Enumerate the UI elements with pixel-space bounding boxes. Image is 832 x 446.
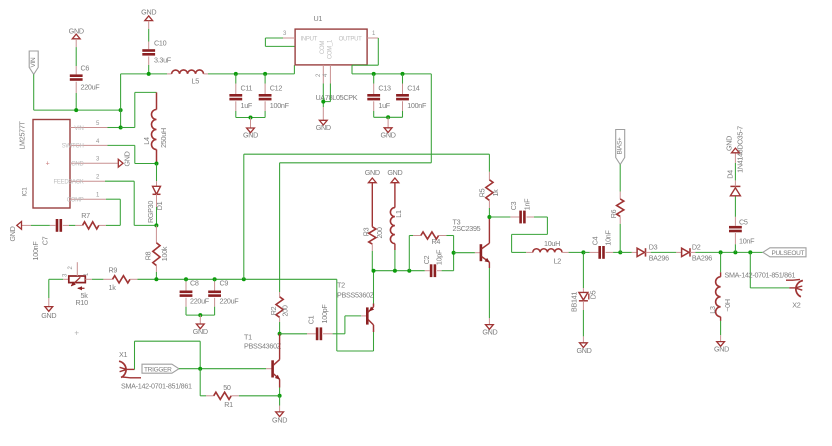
wire riser from rail to VIN pin row bbox=[120, 74, 122, 128]
net flag VIN bbox=[29, 51, 38, 74]
inductor L4 250uH bbox=[156, 92, 158, 109]
svg-text:COM: COM bbox=[320, 41, 326, 54]
wire boost rail left bbox=[121, 73, 167, 75]
junction R5 T3 collector C3 bbox=[487, 215, 491, 219]
wire C8 C9 ground loop bbox=[186, 314, 215, 316]
capacitor C4 10nF bbox=[583, 251, 589, 253]
svg-text:R7: R7 bbox=[81, 211, 90, 220]
wire rail riser to R5 feed line bbox=[243, 154, 245, 279]
wire C1 to T2 base bbox=[344, 316, 346, 334]
transistor T3 2SC2395 bbox=[454, 252, 475, 254]
pin 4 SWITCH of IC1 bbox=[70, 144, 108, 146]
wire X1 loop over trigger flag bbox=[134, 341, 136, 369]
wire boost rail to U1 input corner bbox=[208, 73, 294, 75]
pin 1 output of U1 bbox=[367, 37, 378, 39]
wire COM pins to ground bbox=[322, 84, 324, 108]
wire up to R4 bbox=[408, 236, 410, 271]
junction T3 base node bbox=[452, 251, 456, 255]
wire VIN junction up to L4 top bbox=[121, 127, 135, 129]
wire 5V rail right bbox=[352, 73, 431, 75]
ground GND below C8 C9 bbox=[199, 315, 201, 324]
junction C14 on 5V rail bbox=[401, 72, 405, 76]
ground GND below R10 bbox=[48, 279, 50, 298]
svg-text:L2: L2 bbox=[554, 257, 562, 266]
wire output down to 5V rail bbox=[377, 38, 379, 65]
svg-text:L1: L1 bbox=[394, 210, 403, 218]
ground GND below U1 bbox=[322, 107, 324, 120]
ground GND below C13 C14 bbox=[387, 117, 389, 128]
svg-text:VIN: VIN bbox=[30, 57, 37, 68]
junction D1 bottom feedback node bbox=[154, 223, 158, 227]
junction L2 C4 D5 bbox=[581, 250, 585, 254]
svg-text:C4: C4 bbox=[591, 236, 600, 245]
junction T2 emitter R3 bbox=[372, 269, 376, 273]
wire node row bbox=[374, 270, 425, 272]
pin 2 COM of U1 bbox=[322, 65, 324, 84]
svg-text:C10: C10 bbox=[154, 39, 167, 48]
svg-text:+: + bbox=[74, 329, 79, 338]
svg-text:C8: C8 bbox=[190, 278, 199, 287]
wire FEEDBACK to D1 junction bbox=[105, 180, 134, 182]
svg-text:U1: U1 bbox=[314, 14, 323, 23]
capacitor C14 100nF bbox=[402, 74, 404, 84]
junction ground loop bbox=[198, 313, 202, 317]
junction VIN pin bbox=[119, 126, 123, 130]
svg-text:250uH: 250uH bbox=[159, 128, 168, 148]
pin 3 GND of IC1 bbox=[70, 162, 118, 164]
wire pulse rail bbox=[138, 278, 337, 280]
svg-text:C7: C7 bbox=[41, 236, 50, 245]
svg-text:200: 200 bbox=[375, 227, 384, 238]
pin 3 input of U1 bbox=[283, 37, 295, 39]
wire T1 collector up to C1 node bbox=[279, 334, 281, 360]
IC IC1 LM2577T bbox=[33, 120, 70, 209]
ground GND below T3 bbox=[488, 318, 490, 325]
capacitor C3 1nF bbox=[489, 216, 510, 218]
junction L1 bottom bbox=[393, 269, 397, 273]
svg-text:GND: GND bbox=[725, 136, 734, 151]
svg-text:R10: R10 bbox=[76, 298, 89, 307]
wire trigger node to T1 base bbox=[179, 368, 266, 370]
junction C13 C14 ground bbox=[386, 115, 390, 119]
svg-text:X2: X2 bbox=[792, 300, 800, 309]
svg-text:RGP30: RGP30 bbox=[146, 201, 155, 223]
inductor L5 bbox=[167, 73, 172, 75]
resistor R9 1k bbox=[92, 278, 104, 280]
connector X2 SMA bbox=[749, 252, 751, 288]
svg-text:C14: C14 bbox=[407, 83, 420, 92]
junction X2 tap bbox=[748, 250, 752, 254]
svg-text:GND: GND bbox=[193, 327, 208, 336]
svg-text:220uF: 220uF bbox=[81, 83, 101, 92]
svg-text:PBSS4360Z: PBSS4360Z bbox=[244, 342, 282, 351]
svg-text:R8: R8 bbox=[144, 251, 153, 260]
junction L4 bottom bbox=[155, 162, 159, 166]
pin 1 COMP of IC1 bbox=[70, 198, 106, 200]
svg-text:TRIGGER: TRIGGER bbox=[144, 366, 172, 373]
svg-text:D1: D1 bbox=[155, 201, 164, 210]
resistor R5 1k bbox=[488, 172, 490, 180]
svg-text:220uF: 220uF bbox=[190, 297, 210, 306]
svg-text:R5: R5 bbox=[477, 188, 486, 197]
svg-text:PULSEOUT: PULSEOUT bbox=[772, 250, 805, 257]
junction C8 on rail bbox=[184, 277, 188, 281]
svg-text:100nF: 100nF bbox=[31, 241, 40, 261]
capacitor C11 1uF bbox=[235, 74, 237, 84]
ground GND below D5 bbox=[580, 343, 588, 348]
capacitor C1 100pF bbox=[280, 333, 307, 335]
svg-text:R6: R6 bbox=[609, 209, 618, 218]
svg-text:R2: R2 bbox=[269, 306, 278, 315]
junction R4 branch bbox=[407, 269, 411, 273]
junction R8 bottom on rail bbox=[154, 277, 158, 281]
resistor R8 100k bbox=[155, 225, 157, 242]
svg-text:10uH: 10uH bbox=[544, 239, 560, 248]
svg-text:220uF: 220uF bbox=[220, 297, 240, 306]
ground arrow at pin 3 bbox=[118, 159, 123, 167]
wire T2 collector down to loop bbox=[373, 325, 375, 332]
svg-text:IC1: IC1 bbox=[22, 187, 29, 197]
resistor R4 bbox=[413, 235, 421, 237]
capacitor C5 10nF bbox=[734, 244, 736, 252]
svg-text:GND: GND bbox=[365, 168, 380, 177]
resistor R2 200 bbox=[279, 292, 281, 297]
svg-text:D3: D3 bbox=[649, 243, 658, 252]
svg-text:GND: GND bbox=[316, 123, 331, 132]
junction C5 tap bbox=[733, 250, 737, 254]
wire input jog at pin 3 bbox=[265, 37, 283, 39]
wire VIN down to input rail bbox=[33, 74, 35, 110]
ground GND below C11 C12 bbox=[250, 118, 252, 129]
wire input rail bbox=[34, 109, 121, 111]
diode D2 BA296 bbox=[676, 251, 681, 253]
junction C10 on boost rail bbox=[147, 72, 151, 76]
svg-text:50: 50 bbox=[223, 383, 231, 392]
svg-text:200: 200 bbox=[281, 305, 290, 316]
capacitor C6 220uF bbox=[75, 39, 77, 47]
ground GND above D4 bbox=[734, 153, 736, 163]
svg-text:GND: GND bbox=[714, 345, 729, 354]
svg-text:SWITCH: SWITCH bbox=[62, 144, 84, 150]
transistor T1 PBSS4360Z bbox=[266, 368, 272, 370]
svg-text:GND: GND bbox=[71, 162, 84, 168]
resistor R3 200 bbox=[371, 183, 373, 227]
svg-text:INPUT: INPUT bbox=[301, 37, 318, 43]
svg-text:R1: R1 bbox=[224, 400, 233, 409]
svg-text:COMP: COMP bbox=[67, 198, 84, 204]
wire T3 emitter to ground bbox=[488, 262, 490, 268]
svg-text:GND: GND bbox=[272, 415, 287, 424]
junction C13 on 5V rail bbox=[372, 72, 376, 76]
junction COM ground bbox=[321, 100, 325, 104]
svg-text:C5: C5 bbox=[739, 217, 748, 226]
wire T1 emitter down bbox=[279, 379, 281, 387]
wire R4 C2 join to T3 base bbox=[453, 236, 455, 271]
net flag PULSEOUT bbox=[763, 248, 806, 257]
trimmer R10 5k bbox=[49, 278, 63, 280]
connector X1 SMA bbox=[119, 361, 126, 377]
svg-text:2SC2395: 2SC2395 bbox=[453, 224, 481, 233]
svg-text:X1: X1 bbox=[119, 350, 127, 359]
svg-text:1uF: 1uF bbox=[378, 101, 390, 110]
inductor L3 ~0H bbox=[720, 252, 722, 272]
wire pin5 to riser junction bbox=[108, 127, 121, 129]
wire C13 C14 ground loop bbox=[374, 116, 403, 118]
wire C11 C12 ground loop bbox=[236, 117, 265, 119]
svg-text:C6: C6 bbox=[81, 64, 90, 73]
capacitor C13 1uF bbox=[373, 74, 375, 84]
junction rail riser to R5 feed bbox=[242, 277, 246, 281]
capacitor C7 100nF bbox=[69, 224, 75, 226]
diode D1 RGP30 bbox=[156, 164, 158, 182]
diode D3 BA296 bbox=[620, 251, 632, 253]
svg-text:GND: GND bbox=[387, 168, 402, 177]
svg-text:COM_1: COM_1 bbox=[327, 39, 333, 59]
wire 5V rail down to R2 feed bbox=[430, 74, 432, 163]
svg-text:GND: GND bbox=[123, 151, 132, 166]
junction C11 C12 ground bbox=[249, 116, 253, 120]
ground GND left of C7 bbox=[17, 222, 22, 230]
svg-text:100nF: 100nF bbox=[270, 101, 290, 110]
svg-text:1uF: 1uF bbox=[241, 101, 253, 110]
junction C6 on input rail bbox=[74, 108, 78, 112]
svg-text:GND: GND bbox=[243, 131, 258, 140]
pin 2 FEEDBACK of IC1 bbox=[70, 180, 105, 182]
capacitor C9 220uF bbox=[214, 279, 216, 281]
junction L3 tap bbox=[719, 250, 723, 254]
svg-text:L5: L5 bbox=[192, 77, 200, 86]
svg-text:BA296: BA296 bbox=[649, 254, 669, 263]
junction C12 on rail bbox=[263, 72, 267, 76]
svg-text:3.3uF: 3.3uF bbox=[154, 56, 172, 65]
svg-text:GND: GND bbox=[8, 226, 17, 241]
svg-text:D5: D5 bbox=[589, 290, 598, 299]
wire COMP down to R7 bbox=[106, 198, 120, 200]
svg-text:BB141: BB141 bbox=[570, 292, 579, 312]
wire T2 emitter up to node row bbox=[373, 304, 375, 307]
svg-text:D4: D4 bbox=[726, 170, 735, 179]
junction input rail riser bbox=[119, 108, 123, 112]
svg-text:+: + bbox=[46, 161, 50, 168]
resistor R6 bbox=[619, 192, 621, 199]
wire SWITCH to L4 bottom junction bbox=[108, 144, 135, 146]
resistor R1 50 bbox=[206, 395, 214, 397]
svg-text:100k: 100k bbox=[160, 246, 169, 261]
wire trigger node down to R1 bbox=[199, 369, 201, 396]
svg-text:R3: R3 bbox=[362, 227, 371, 236]
capacitor C8 220uF bbox=[185, 279, 187, 281]
svg-text:L4: L4 bbox=[142, 137, 151, 145]
svg-text:~0H: ~0H bbox=[723, 299, 732, 312]
svg-text:FEEDBACK: FEEDBACK bbox=[54, 180, 84, 186]
svg-text:LM2577T: LM2577T bbox=[18, 120, 27, 149]
svg-text:OUTPUT: OUTPUT bbox=[339, 37, 363, 43]
inductor L1 bbox=[394, 183, 396, 208]
svg-text:1k: 1k bbox=[491, 189, 500, 197]
svg-text:GND: GND bbox=[381, 130, 396, 139]
svg-text:10pF: 10pF bbox=[434, 249, 443, 265]
svg-text:GND: GND bbox=[576, 346, 591, 355]
wire C3 jog down to L2 bbox=[546, 217, 548, 234]
svg-text:T2: T2 bbox=[337, 281, 345, 290]
svg-text:C2: C2 bbox=[422, 255, 431, 264]
junction R2 T1 collector C1 node bbox=[278, 332, 282, 336]
capacitor C10 3.3uF bbox=[148, 21, 150, 29]
wire collector loop to pulse rail corner bbox=[337, 350, 374, 352]
svg-text:R9: R9 bbox=[109, 266, 118, 275]
wire BIAS+ down to R6 bbox=[619, 165, 621, 192]
svg-text:VIN: VIN bbox=[74, 126, 83, 132]
svg-text:C3: C3 bbox=[509, 201, 518, 210]
svg-text:L3: L3 bbox=[708, 306, 717, 314]
pin 5 VIN of IC1 bbox=[70, 127, 108, 129]
svg-text:SMA-142-0701-851/861: SMA-142-0701-851/861 bbox=[725, 270, 796, 279]
inductor L2 10uH bbox=[526, 251, 533, 253]
svg-text:100pF: 100pF bbox=[320, 304, 329, 324]
wire T3 collector to R5 node bbox=[488, 217, 490, 243]
svg-text:C9: C9 bbox=[220, 278, 229, 287]
svg-text:GND: GND bbox=[482, 328, 497, 337]
svg-text:C1: C1 bbox=[307, 315, 316, 324]
svg-text:100nF: 100nF bbox=[407, 101, 427, 110]
svg-text:1k: 1k bbox=[109, 283, 117, 292]
transistor T2 PBSS5360Z bbox=[361, 315, 366, 317]
svg-text:SMA-142-0701-851/861: SMA-142-0701-851/861 bbox=[121, 382, 192, 391]
junction C9 on rail bbox=[213, 277, 217, 281]
capacitor C12 100nF bbox=[264, 74, 266, 84]
resistor R7 bbox=[99, 224, 106, 226]
svg-text:C12: C12 bbox=[270, 83, 283, 92]
svg-text:BIAS+: BIAS+ bbox=[617, 137, 624, 155]
svg-text:C11: C11 bbox=[241, 83, 253, 92]
varactor D5 BB141 bbox=[582, 252, 584, 288]
pin 4 COM_1 of U1 bbox=[329, 65, 331, 84]
net flag TRIGGER bbox=[142, 364, 179, 373]
junction C4 R6 D3 bbox=[618, 250, 622, 254]
ground GND below L3 bbox=[717, 342, 725, 347]
net flag BIAS+ bbox=[616, 130, 625, 165]
junction trigger node bbox=[198, 367, 202, 371]
ground GND below T1 bbox=[279, 396, 281, 406]
junction T1 emitter R1 bbox=[278, 394, 282, 398]
U1 regulator UA78L05CPK bbox=[295, 29, 367, 65]
svg-text:BA296: BA296 bbox=[692, 254, 712, 263]
svg-text:R4: R4 bbox=[432, 237, 441, 246]
svg-text:GND: GND bbox=[41, 311, 56, 320]
svg-text:T1: T1 bbox=[244, 333, 252, 342]
capacitor C2 10pF bbox=[425, 270, 430, 272]
svg-text:10nF: 10nF bbox=[739, 237, 755, 246]
svg-text:10nF: 10nF bbox=[604, 230, 613, 246]
svg-text:C13: C13 bbox=[378, 83, 391, 92]
svg-text:D2: D2 bbox=[692, 243, 701, 252]
junction C11 on rail bbox=[234, 72, 238, 76]
svg-text:PBSS5360Z: PBSS5360Z bbox=[337, 291, 375, 300]
svg-text:1nF: 1nF bbox=[522, 198, 531, 210]
diode D4 1N4148DO35-7 bbox=[734, 195, 736, 197]
